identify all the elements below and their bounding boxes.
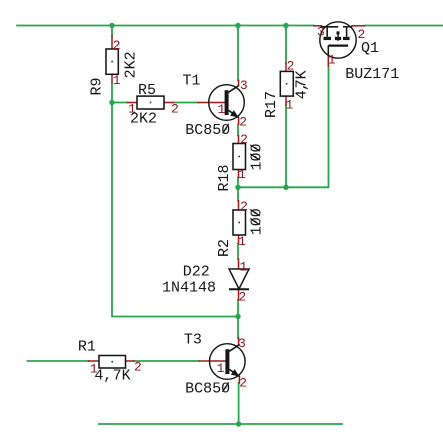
svg-text:2: 2 <box>240 199 248 214</box>
svg-text:1: 1 <box>128 102 136 117</box>
svg-text:1: 1 <box>113 73 121 88</box>
svg-text:D22: D22 <box>183 264 210 281</box>
svg-text:1: 1 <box>90 362 98 377</box>
svg-text:3: 3 <box>238 336 246 351</box>
svg-text:1: 1 <box>328 52 336 67</box>
svg-text:7K: 7K <box>113 367 131 384</box>
svg-text:Q1: Q1 <box>361 40 379 57</box>
svg-text:R2: R2 <box>216 239 233 257</box>
svg-text:2: 2 <box>113 38 121 53</box>
svg-text:3: 3 <box>317 25 325 40</box>
svg-text:2: 2 <box>240 132 248 147</box>
svg-text:2: 2 <box>134 359 142 374</box>
svg-text:2: 2 <box>239 289 247 304</box>
svg-text:R1: R1 <box>78 338 96 355</box>
svg-text:R9: R9 <box>88 77 105 95</box>
svg-text:2: 2 <box>358 27 366 42</box>
svg-text:7K: 7K <box>294 70 311 88</box>
svg-text:100: 100 <box>248 143 265 170</box>
svg-text:R18: R18 <box>216 164 233 191</box>
svg-text:2: 2 <box>287 59 295 74</box>
svg-text:,: , <box>103 367 112 384</box>
svg-text:BC850: BC850 <box>185 380 230 397</box>
svg-text:2: 2 <box>171 102 179 117</box>
svg-text:1: 1 <box>218 102 226 117</box>
svg-text:2: 2 <box>239 376 247 391</box>
svg-text:1: 1 <box>217 361 225 376</box>
svg-text:T3: T3 <box>184 331 202 348</box>
svg-text:1: 1 <box>240 259 248 274</box>
svg-text:1: 1 <box>238 167 246 182</box>
svg-text:2: 2 <box>239 114 247 129</box>
svg-text:1N4148: 1N4148 <box>162 280 216 297</box>
svg-text:R5: R5 <box>138 82 156 99</box>
svg-text:BC850: BC850 <box>185 122 230 139</box>
svg-text:1: 1 <box>238 234 246 249</box>
svg-text:2K2: 2K2 <box>123 51 140 78</box>
svg-text:T1: T1 <box>183 73 201 90</box>
svg-text:100: 100 <box>248 208 265 235</box>
svg-text:3: 3 <box>240 78 248 93</box>
svg-text:1: 1 <box>286 97 294 112</box>
svg-text:BUZ171: BUZ171 <box>345 66 399 83</box>
svg-text:R17: R17 <box>263 91 280 118</box>
